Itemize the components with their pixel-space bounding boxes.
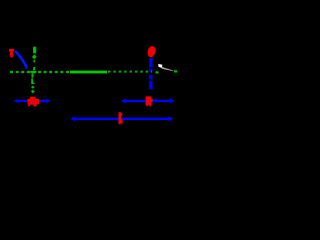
lens bottom arrowhead: [31, 90, 35, 94]
baseline arrow bottom: right head: [169, 116, 174, 121]
lens diamond 1: [31, 86, 35, 89]
distance arrow right: shaft: [125, 100, 172, 102]
distance arrow left: red handle: [28, 97, 40, 107]
flame red blob on image marker: [148, 46, 156, 57]
cursor tail: [162, 67, 173, 71]
optical axis right dashed: [108, 71, 152, 73]
baseline arrow bottom: left head: [70, 116, 75, 121]
optical axis left dashed: [10, 71, 70, 73]
axis end dash 2: [174, 70, 177, 72]
baseline arrow bottom: red tick: [119, 112, 123, 124]
lens dash below axis 1: [32, 73, 34, 77]
axis end dash 1: [156, 71, 159, 73]
distance arrow left: left head: [14, 99, 18, 104]
lens green dashed vertical: top blob: [33, 47, 36, 54]
lens diamond above axis: [32, 54, 37, 59]
distance arrow right: left head: [121, 98, 126, 103]
distance arrow left: shaft: [17, 100, 47, 102]
image marker dashed vertical line: [149, 58, 152, 89]
baseline arrow bottom: shaft: [74, 118, 170, 120]
lens dash y60: [33, 60, 35, 62]
distance arrow right: mid head pointing left: [152, 99, 156, 104]
lens dash below axis 2 with foot: [31, 79, 34, 85]
distance arrow right: right head: [170, 98, 175, 103]
axis wide dash at lens crossing: [30, 71, 36, 73]
distance arrow right: red handle: [146, 96, 153, 106]
optical axis solid segment: [70, 71, 107, 74]
drag path blue dashed arc: [16, 52, 27, 69]
distance arrow left: right head: [46, 99, 50, 104]
lens dash above axis: [33, 67, 35, 70]
object red T: [9, 49, 14, 57]
cursor head: [158, 64, 162, 68]
